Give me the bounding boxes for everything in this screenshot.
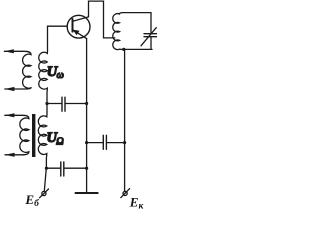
wire tank right branch bottom (150, 37, 152, 49)
wire C1 right (65, 103, 86, 105)
transistor Q1 emitter arrow (73, 30, 80, 36)
node emitter junction 2 (85, 167, 88, 170)
transformer T1 left winding (4, 51, 31, 89)
transistor Q1 collector lead (73, 17, 89, 21)
capacitor C3 (102, 135, 104, 149)
wire collector supply line (124, 49, 126, 191)
capacitor C2 (60, 162, 62, 176)
transformer T2 core (32, 114, 35, 157)
wire C3 left (87, 142, 103, 144)
arrow T2 bottom (5, 153, 15, 157)
ground chassis bar (76, 192, 98, 194)
wire collector to tank tap (89, 1, 115, 38)
transistor Q1 (67, 15, 90, 38)
node base junction (45, 102, 48, 105)
transformer T1 right winding with base lead (39, 26, 48, 103)
node C3 right junction (123, 141, 126, 144)
transistor Q1 emitter lead (73, 30, 87, 39)
capacitor C1 (61, 97, 63, 111)
wire base lead (48, 25, 68, 27)
arrow T1 bottom (5, 87, 15, 91)
transformer T2 left winding (5, 115, 29, 155)
terminal Ek (123, 191, 127, 195)
capacitor C4 variable plates (144, 33, 157, 35)
node tank bottom junction (122, 48, 125, 51)
transistor Q1 base bar (72, 19, 74, 32)
node C2 left junction (45, 167, 48, 170)
transformer T2 right winding (38, 104, 47, 169)
wire C2 right (64, 167, 86, 169)
wire Eb drop (44, 168, 46, 191)
terminal Eb (42, 191, 46, 195)
node emitter junction 1 (85, 102, 88, 105)
wire C3 right (107, 142, 125, 144)
arrow T2 top (5, 113, 15, 117)
wire C2 left (46, 167, 60, 169)
arrow T1 top (4, 49, 14, 53)
wire tank right branch top (150, 13, 152, 34)
wire emitter vertical (86, 39, 88, 192)
node C3 left junction (85, 141, 88, 144)
inductor L tank coil with top lead (113, 13, 152, 50)
wire C1 left (47, 103, 62, 105)
capacitor C4 variable arrow (141, 28, 156, 46)
